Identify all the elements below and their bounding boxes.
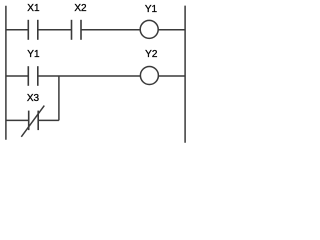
right power rail [184, 6, 186, 143]
coil Y1 [140, 20, 158, 38]
wire branch left rail to X3 [6, 119, 29, 121]
svg-text:Y1: Y1 [145, 4, 158, 15]
svg-text:X1: X1 [27, 3, 40, 14]
wire coil Y2 to right rail [158, 75, 185, 77]
wire X3 to branch junction [38, 119, 59, 121]
svg-text:X2: X2 [74, 3, 87, 14]
left power rail [5, 6, 7, 140]
contact X2 [72, 20, 82, 40]
svg-text:Y1: Y1 [27, 49, 40, 60]
contact Y1 [28, 66, 38, 86]
wire X2 to coil Y1 [81, 29, 140, 31]
wire rung2 left rail to contact Y1 [6, 75, 28, 77]
wire branch junction vertical [58, 76, 60, 120]
contact X1 [28, 20, 38, 40]
coil Y2 [140, 67, 158, 85]
wire rung1 left rail to X1 [6, 29, 28, 31]
wire contact Y1 to coil Y2 [38, 75, 141, 77]
svg-text:Y2: Y2 [145, 49, 158, 60]
svg-text:X3: X3 [27, 93, 40, 104]
wire X1 to X2 [38, 29, 72, 31]
wire coil Y1 to right rail [158, 29, 185, 31]
contact X3 (NC) [21, 106, 44, 137]
